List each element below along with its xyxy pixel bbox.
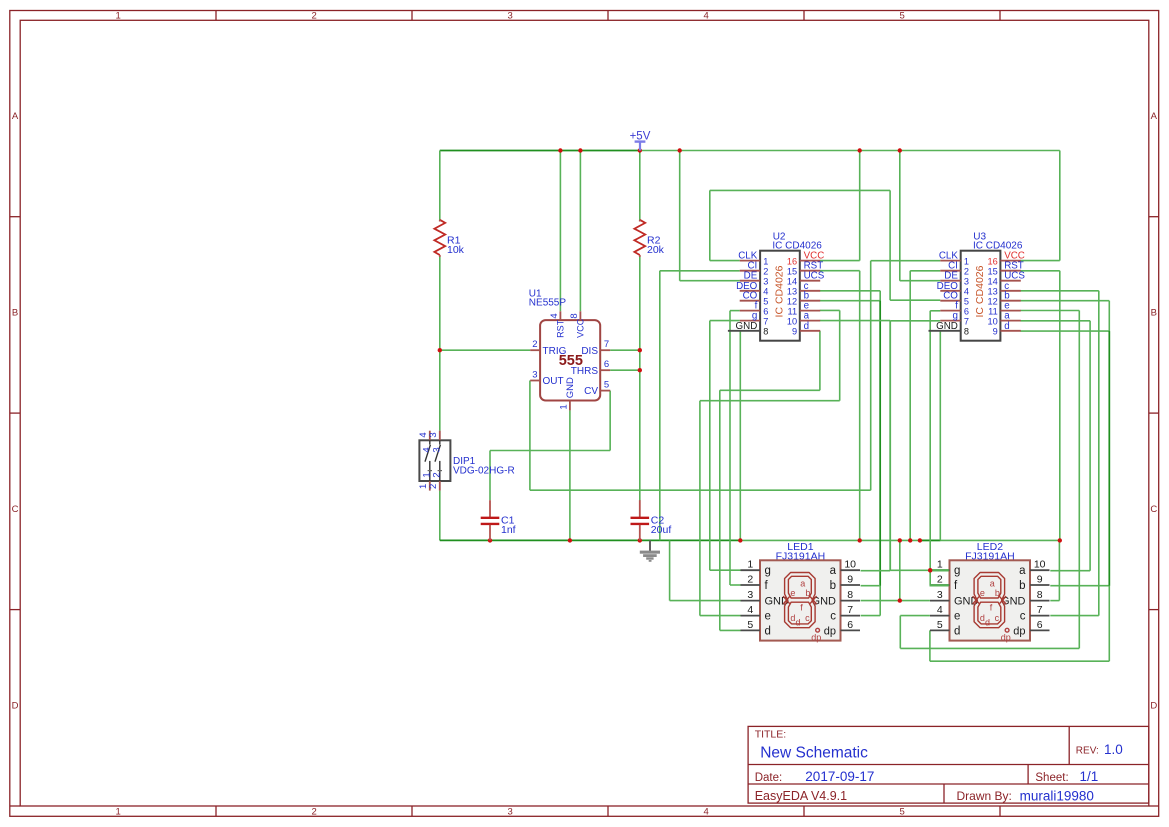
svg-text:CV: CV (584, 386, 598, 397)
IC U3 CD4026 (929, 231, 1026, 340)
svg-text:e: e (765, 611, 771, 623)
svg-text:1/1: 1/1 (1080, 769, 1099, 784)
svg-text:C: C (12, 504, 19, 515)
svg-text:VDG-02HG-R: VDG-02HG-R (453, 465, 515, 476)
svg-text:3: 3 (432, 447, 443, 452)
svg-text:OUT: OUT (543, 376, 564, 387)
capacitor C1 (481, 500, 516, 540)
wire +5V top bus (dark doubled left segment) (440, 150, 640, 152)
svg-text:Drawn By:: Drawn By: (957, 789, 1012, 803)
svg-text:2: 2 (964, 267, 969, 277)
svg-text:8: 8 (964, 327, 969, 337)
svg-text:16: 16 (787, 256, 797, 266)
svg-text:5: 5 (899, 11, 904, 22)
svg-text:2017-09-17: 2017-09-17 (805, 769, 874, 784)
svg-text:EasyEDA V4.9.1: EasyEDA V4.9.1 (755, 789, 847, 803)
svg-text:7: 7 (604, 339, 609, 350)
svg-text:b: b (830, 580, 836, 592)
svg-text:e: e (954, 611, 960, 623)
wire U3 DE to +5V bus (900, 151, 941, 281)
svg-text:A: A (1151, 111, 1158, 122)
svg-text:THRS: THRS (571, 366, 599, 377)
svg-text:4: 4 (937, 604, 943, 616)
svg-text:b: b (805, 588, 810, 598)
svg-text:13: 13 (987, 287, 997, 297)
svg-text:13: 13 (787, 287, 797, 297)
wire R2 bottom through DIS/THRS junctions to C2 top (639, 257, 641, 501)
switch DIP1 VDG-02HG-R (418, 431, 515, 491)
svg-text:Date:: Date: (755, 772, 783, 784)
svg-text:11: 11 (788, 306, 798, 316)
svg-text:2: 2 (937, 573, 943, 585)
svg-text:1: 1 (115, 11, 120, 22)
svg-text:3: 3 (532, 369, 537, 380)
svg-text:b: b (995, 588, 1000, 598)
wire U3 VCC from +5V bus right corner (1020, 151, 1059, 261)
wire U2 DE to +5V bus (680, 151, 740, 281)
svg-text:2: 2 (747, 573, 753, 585)
svg-text:8: 8 (1037, 589, 1043, 601)
svg-text:d: d (765, 625, 771, 637)
svg-text:2: 2 (311, 11, 316, 22)
svg-text:dp: dp (824, 625, 836, 637)
svg-text:5: 5 (604, 379, 609, 390)
svg-text:4: 4 (964, 287, 969, 297)
svg-text:6: 6 (847, 619, 853, 631)
wire U2 f to LED1 pin2 (730, 311, 741, 585)
svg-text:c: c (1020, 611, 1026, 623)
wire U3 CO to U2 CLK loop (710, 190, 941, 300)
frame row letters (12, 111, 1158, 711)
svg-text:d: d (804, 321, 809, 332)
svg-text:1: 1 (763, 256, 768, 266)
wire C1 top lead (489, 451, 491, 501)
wire U2 RST down to GND bus (820, 271, 860, 541)
svg-text:20k: 20k (647, 244, 665, 256)
svg-text:10: 10 (844, 559, 856, 571)
svg-text:12: 12 (987, 297, 997, 307)
wire GND bus to LED1 pin3 (670, 540, 741, 600)
svg-text:a: a (830, 565, 837, 577)
svg-text:3: 3 (507, 806, 512, 817)
svg-text:10: 10 (1034, 559, 1046, 571)
wire 555 THRS to R2 column (610, 369, 640, 371)
wire R2 column: bus to R2 top (639, 151, 641, 221)
wire overlays onto LED2 pin1/pin2 stubs (928, 568, 949, 585)
wire U2 e to LED1 pin4 (700, 310, 840, 615)
svg-text:DIS: DIS (581, 346, 598, 357)
svg-text:RST: RST (556, 319, 566, 338)
svg-text:15: 15 (987, 267, 997, 277)
wire U2 CI down to GND bus (660, 271, 740, 541)
svg-text:4: 4 (763, 287, 768, 297)
svg-text:murali19980: murali19980 (1020, 789, 1094, 804)
svg-text:2: 2 (311, 806, 316, 817)
svg-text:1: 1 (937, 559, 943, 571)
svg-text:Sheet:: Sheet: (1035, 772, 1068, 784)
svg-text:9: 9 (993, 327, 998, 337)
svg-text:a: a (990, 578, 995, 588)
svg-text:6: 6 (604, 359, 609, 370)
svg-text:g: g (954, 565, 960, 577)
svg-text:3: 3 (428, 432, 439, 437)
svg-text:1: 1 (964, 256, 969, 266)
wire 555 GND pin1 to bus (569, 410, 571, 540)
wire U2 VCC to +5V bus (820, 151, 860, 261)
op-amp/timer U1 NE555P (529, 288, 610, 410)
wire U3 g to LED2 pin1 (890, 321, 949, 571)
svg-text:2: 2 (432, 472, 443, 477)
LED display LED1 FJ3191AH (418, 431, 1050, 643)
svg-text:dp: dp (1013, 625, 1025, 637)
svg-text:8: 8 (569, 313, 580, 318)
svg-text:14: 14 (787, 277, 797, 287)
svg-text:20uf: 20uf (651, 524, 672, 536)
svg-text:5: 5 (763, 297, 768, 307)
svg-text:5: 5 (964, 297, 969, 307)
svg-text:dp: dp (1001, 633, 1011, 643)
wire U2 d to LED1 pin5 (720, 331, 820, 631)
svg-text:New Schematic: New Schematic (760, 745, 868, 762)
svg-text:6: 6 (1037, 619, 1043, 631)
wire U3 GND pin8 to bus (939, 331, 941, 541)
svg-text:12: 12 (787, 297, 797, 307)
svg-text:1: 1 (559, 404, 570, 409)
svg-text:5: 5 (937, 619, 943, 631)
wire U2 a to LED1 pin10 (820, 321, 890, 571)
svg-text:A: A (12, 111, 19, 122)
power flag +5V (630, 131, 651, 151)
svg-text:4: 4 (549, 313, 560, 318)
wire 555 OUT down and across to U3 CLK (530, 261, 940, 491)
svg-text:3: 3 (747, 589, 753, 601)
svg-text:d: d (954, 625, 960, 637)
svg-text:3: 3 (507, 11, 512, 22)
svg-text:7: 7 (763, 316, 768, 326)
svg-text:e: e (980, 588, 985, 598)
svg-text:c: c (805, 613, 810, 623)
svg-text:VCC: VCC (576, 318, 586, 338)
wire 555 RST pin4 to +5V bus (559, 151, 561, 312)
svg-text:c: c (830, 611, 836, 623)
wire U3 CI down to GND bus (910, 271, 940, 541)
wire 555 CV to C1 top (490, 391, 610, 451)
svg-text:a: a (800, 578, 805, 588)
svg-text:3: 3 (937, 589, 943, 601)
svg-text:6: 6 (964, 306, 969, 316)
svg-text:5: 5 (899, 806, 904, 817)
frame column numbers (115, 11, 904, 818)
svg-text:2: 2 (428, 484, 439, 489)
svg-text:2: 2 (763, 267, 768, 277)
wire 555 DIS to R2 column (610, 349, 640, 351)
wire +5V top bus right segment (640, 150, 1060, 152)
wire U3 e to LED2 pin4 (900, 311, 1079, 649)
svg-text:4: 4 (703, 11, 708, 22)
wire U2 GND pin8 to bus (739, 331, 741, 541)
wire R1 column: bus to R1 top (439, 151, 441, 221)
wire 555 VCC pin8 to +5V bus (579, 151, 581, 312)
svg-text:D: D (12, 700, 19, 711)
wire U3 a to LED2 pin10 (1020, 321, 1090, 571)
svg-text:GND: GND (736, 321, 758, 332)
svg-text:1.0: 1.0 (1104, 742, 1123, 757)
svg-text:6: 6 (763, 306, 768, 316)
wire U2 g to LED1 pin1 (710, 321, 741, 571)
svg-text:1nf: 1nf (501, 524, 516, 536)
svg-text:1: 1 (115, 806, 120, 817)
wire GND bus end to LED2 pin8 (1050, 540, 1059, 600)
svg-text:7: 7 (964, 316, 969, 326)
svg-text:e: e (790, 588, 795, 598)
svg-text:16: 16 (987, 256, 997, 266)
resistor R2 (634, 220, 664, 257)
IC U2 CD4026 (728, 231, 825, 340)
svg-text:d: d (796, 618, 801, 628)
svg-text:B: B (12, 307, 18, 318)
resistor R1 (434, 220, 464, 257)
svg-text:2: 2 (532, 339, 537, 350)
svg-text:3: 3 (964, 277, 969, 287)
svg-text:TITLE:: TITLE: (755, 729, 787, 741)
svg-text:4: 4 (703, 806, 708, 817)
wire U2 b to LED1 pin9 (overlaps c vertical: dark) (820, 301, 880, 586)
wire U3 d to LED2 pin5 (overlaps b vertical: dark) (930, 331, 1109, 661)
svg-text:TRIG: TRIG (543, 346, 567, 357)
wire U3 RST down to GND bus (1020, 271, 1059, 541)
wire GND bus dark overlap of U3 GND lead (920, 539, 940, 541)
wire GND bottom bus (dark doubled left segment) (440, 539, 741, 541)
svg-text:IC CD4026: IC CD4026 (773, 265, 785, 317)
svg-text:10: 10 (787, 316, 797, 326)
svg-text:9: 9 (792, 327, 797, 337)
wire U3 b to LED2 pin9 (1020, 301, 1109, 586)
svg-text:C: C (1150, 504, 1157, 515)
wire U3 f to LED2 pin2 via 4-way junction (930, 311, 949, 586)
wire TRIG net horizontal (440, 349, 530, 351)
svg-text:B: B (1151, 307, 1157, 318)
svg-text:9: 9 (847, 573, 853, 585)
wire DIP1 pin2 down to GND bus (439, 491, 441, 541)
svg-text:IC CD4026: IC CD4026 (974, 265, 986, 317)
svg-text:REV:: REV: (1076, 746, 1099, 757)
svg-text:9: 9 (1037, 573, 1043, 585)
svg-text:4: 4 (747, 604, 753, 616)
junction redraw at LED2 pin1 (928, 568, 932, 572)
svg-text:dp: dp (811, 633, 821, 643)
svg-text:d: d (1004, 321, 1009, 332)
svg-text:3: 3 (763, 277, 768, 287)
svg-text:D: D (1150, 700, 1157, 711)
LED display LED2 FJ3191AH (418, 431, 1050, 643)
ground symbol (640, 540, 660, 561)
svg-text:1: 1 (747, 559, 753, 571)
svg-text:10k: 10k (447, 244, 465, 256)
svg-text:GND: GND (565, 377, 576, 398)
wire U3 c to LED2 pin7 (1020, 291, 1098, 616)
svg-text:d: d (985, 618, 990, 628)
svg-text:8: 8 (763, 327, 768, 337)
svg-text:11: 11 (988, 306, 998, 316)
svg-text:b: b (1019, 580, 1025, 592)
wire LED1 pin8 to LED2 pin3 with GND bus tap (861, 540, 930, 600)
title block (748, 726, 1149, 803)
svg-text:15: 15 (787, 267, 797, 277)
svg-text:7: 7 (1037, 604, 1043, 616)
svg-text:8: 8 (847, 589, 853, 601)
svg-text:NE555P: NE555P (529, 298, 567, 309)
svg-text:GND: GND (936, 321, 958, 332)
wire U2 c to LED1 pin7 (820, 291, 880, 616)
wire GND bottom bus right segment (740, 539, 1060, 541)
svg-text:5: 5 (747, 619, 753, 631)
capacitor C2 (631, 500, 672, 540)
wire R1 bottom to TRIG junction to DIP1 pin3 (439, 257, 441, 431)
svg-text:g: g (765, 565, 771, 577)
svg-text:c: c (995, 613, 1000, 623)
svg-text:10: 10 (987, 316, 997, 326)
svg-text:7: 7 (847, 604, 853, 616)
svg-text:14: 14 (987, 277, 997, 287)
svg-text:a: a (1019, 565, 1026, 577)
